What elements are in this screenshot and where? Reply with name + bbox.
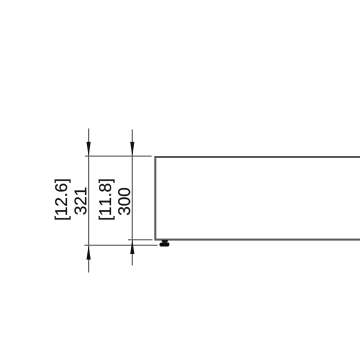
leveling foot — [161, 240, 168, 242]
dim text [12.6] — [55, 179, 71, 219]
dim text [11.8] — [99, 179, 115, 219]
burner body outline — [155, 157, 360, 240]
arrow 321 top — [87, 142, 91, 156]
dim text 300 — [118, 188, 130, 215]
arrow 321 bottom — [87, 245, 91, 259]
arrow 300 bottom — [130, 240, 134, 254]
dimension line 321 — [88, 129, 90, 273]
extension line foot bottom — [84, 244, 157, 246]
arrow 300 top — [130, 142, 134, 156]
extension line body bottom — [128, 239, 153, 241]
dim text 321 — [74, 188, 86, 215]
dimension line 300 — [131, 130, 133, 266]
extension line top — [85, 155, 152, 157]
